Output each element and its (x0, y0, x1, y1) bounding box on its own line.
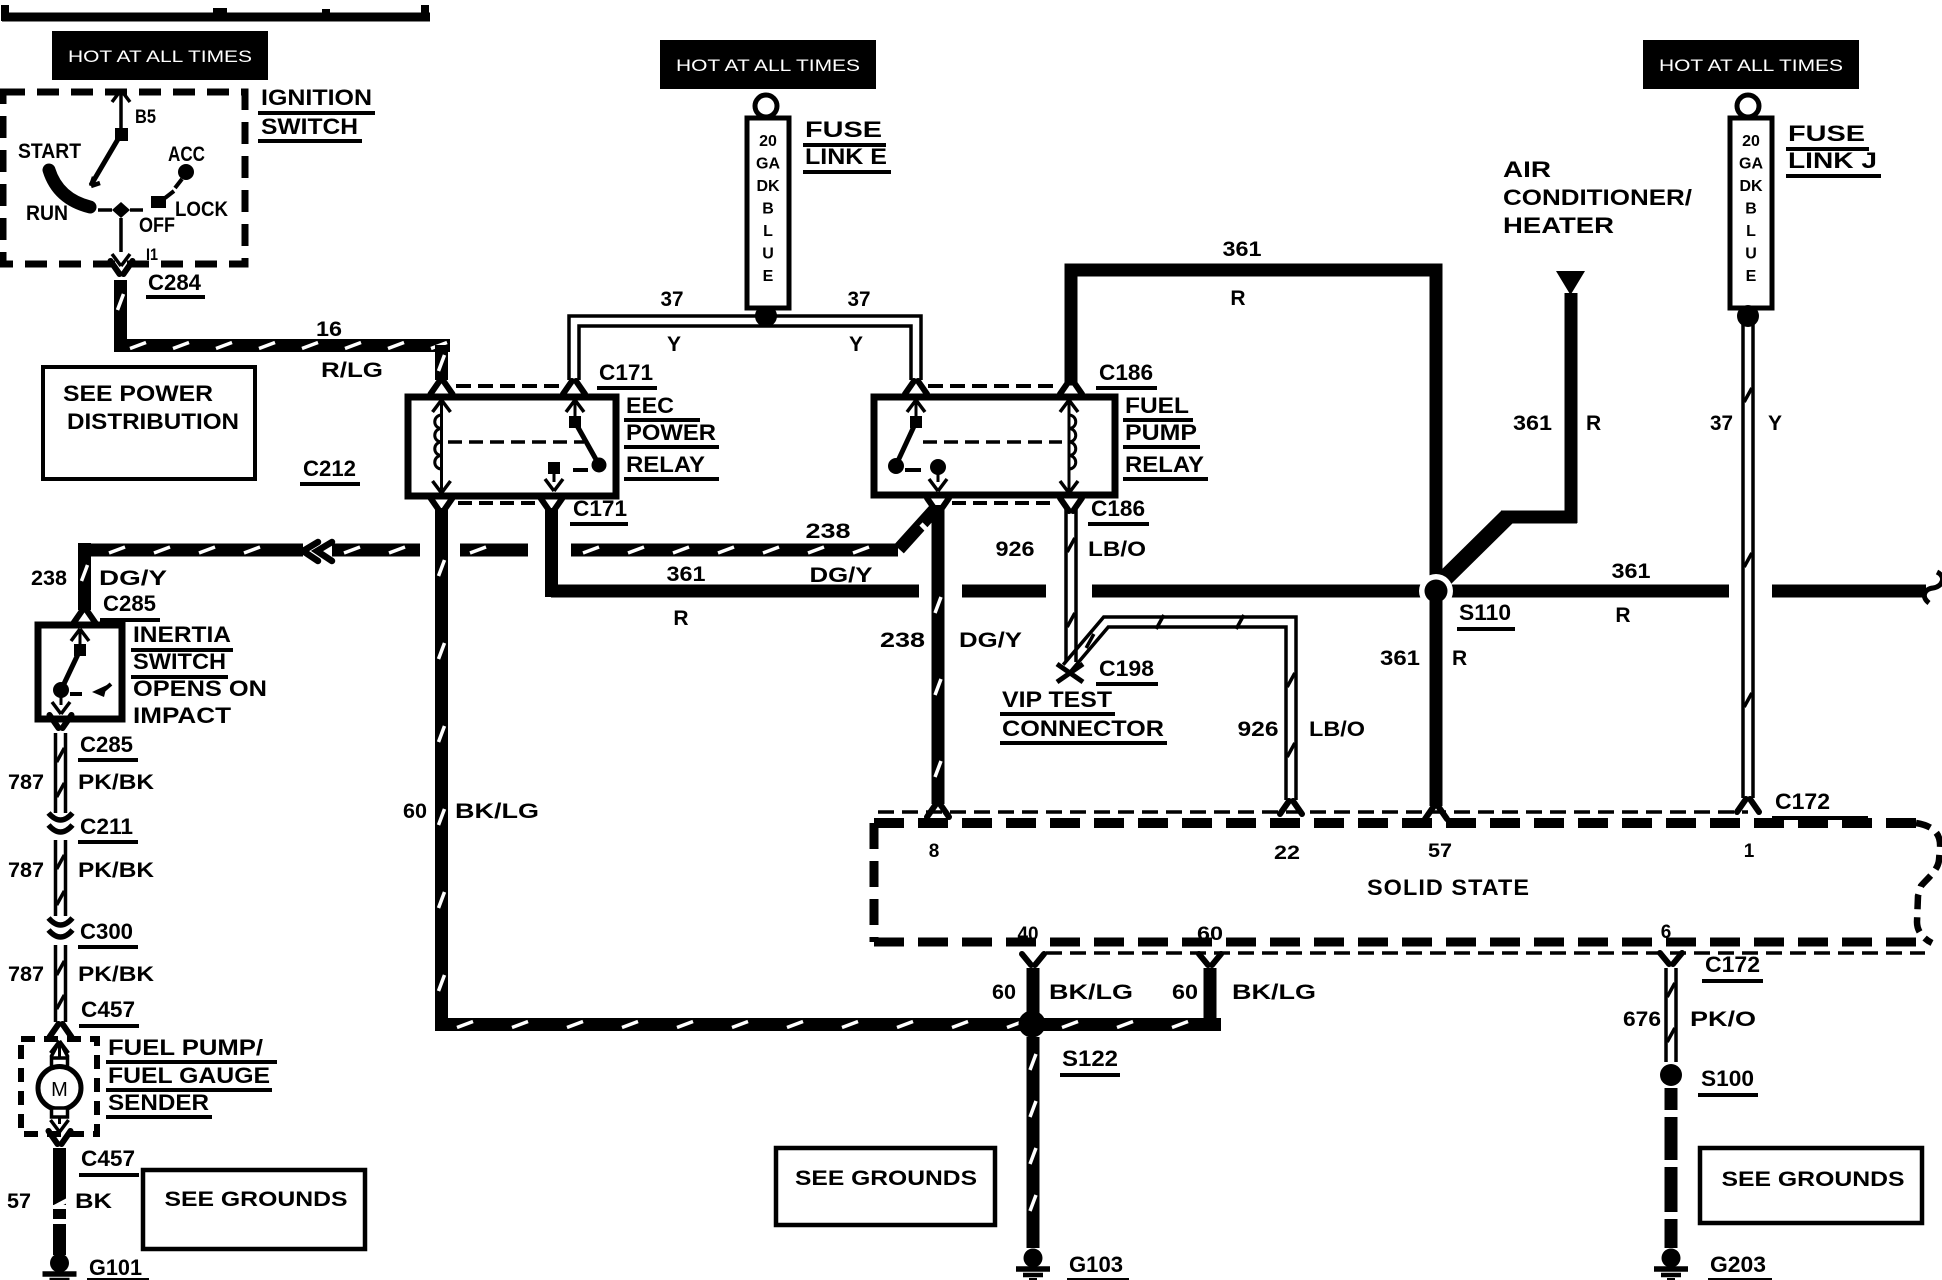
svg-text:57: 57 (1428, 841, 1452, 862)
svg-text:CONDITIONER/: CONDITIONER/ (1503, 185, 1692, 210)
svg-text:I1: I1 (146, 245, 158, 264)
svg-text:S122: S122 (1062, 1046, 1118, 1071)
svg-text:6: 6 (1661, 922, 1672, 943)
svg-text:37: 37 (661, 288, 684, 311)
svg-text:RUN: RUN (26, 202, 68, 225)
svg-text:EEC: EEC (626, 393, 674, 418)
svg-text:BK/LG: BK/LG (1232, 981, 1316, 1004)
svg-text:HEATER: HEATER (1503, 213, 1614, 238)
svg-text:FUEL GAUGE: FUEL GAUGE (108, 1063, 270, 1088)
svg-text:IMPACT: IMPACT (133, 703, 232, 728)
svg-text:361: 361 (1612, 560, 1651, 583)
svg-text:SWITCH: SWITCH (133, 649, 226, 674)
svg-text:BK: BK (75, 1190, 112, 1213)
svg-text:B: B (1745, 201, 1757, 218)
svg-text:R: R (1586, 412, 1601, 435)
svg-text:20: 20 (759, 133, 777, 150)
svg-text:DK: DK (1739, 178, 1763, 195)
svg-text:PK/BK: PK/BK (78, 963, 154, 986)
svg-text:C172: C172 (1775, 789, 1830, 814)
svg-text:C198: C198 (1099, 656, 1154, 681)
svg-text:C171: C171 (573, 496, 627, 521)
svg-text:R: R (1615, 604, 1630, 627)
svg-text:8: 8 (929, 841, 940, 862)
svg-text:S100: S100 (1701, 1066, 1754, 1091)
svg-text:361: 361 (667, 563, 706, 586)
svg-text:C285: C285 (103, 591, 156, 616)
svg-text:OPENS ON: OPENS ON (133, 676, 267, 701)
svg-text:PK/O: PK/O (1690, 1008, 1756, 1031)
svg-text:R: R (1452, 647, 1467, 670)
svg-text:60: 60 (1172, 981, 1198, 1004)
svg-text:SEE GROUNDS: SEE GROUNDS (165, 1188, 348, 1211)
svg-text:R: R (673, 607, 688, 630)
svg-text:926: 926 (1238, 718, 1279, 741)
svg-text:C284: C284 (148, 270, 202, 295)
svg-text:G103: G103 (1069, 1252, 1123, 1277)
svg-text:57: 57 (7, 1190, 31, 1213)
svg-text:SEE GROUNDS: SEE GROUNDS (1722, 1168, 1905, 1191)
svg-text:E: E (763, 268, 774, 285)
svg-text:926: 926 (996, 538, 1035, 561)
svg-text:FUEL PUMP/: FUEL PUMP/ (108, 1035, 263, 1060)
svg-text:L: L (763, 223, 773, 240)
svg-text:60: 60 (992, 981, 1016, 1004)
svg-text:C285: C285 (80, 732, 133, 757)
svg-text:60: 60 (1197, 924, 1223, 945)
svg-text:787: 787 (8, 771, 44, 794)
svg-text:CONNECTOR: CONNECTOR (1002, 716, 1164, 741)
svg-text:361: 361 (1223, 238, 1262, 261)
svg-text:C172: C172 (1705, 952, 1760, 977)
svg-text:HOT AT ALL TIMES: HOT AT ALL TIMES (676, 56, 860, 75)
svg-text:PUMP: PUMP (1125, 420, 1197, 445)
svg-text:DK: DK (756, 178, 780, 195)
svg-text:DISTRIBUTION: DISTRIBUTION (67, 409, 239, 434)
svg-text:LINK J: LINK J (1788, 148, 1877, 173)
svg-text:16: 16 (316, 318, 342, 341)
svg-text:LOCK: LOCK (175, 198, 228, 221)
svg-text:U: U (762, 246, 774, 263)
svg-text:M: M (51, 1079, 68, 1101)
svg-text:FUSE: FUSE (1788, 121, 1865, 146)
svg-text:C186: C186 (1099, 360, 1153, 385)
svg-text:DG/Y: DG/Y (959, 629, 1022, 652)
svg-text:L: L (1746, 223, 1756, 240)
svg-text:676: 676 (1623, 1008, 1661, 1031)
svg-text:LINK E: LINK E (805, 144, 887, 169)
svg-text:238: 238 (880, 629, 925, 652)
svg-text:AIR: AIR (1503, 157, 1551, 182)
svg-text:37: 37 (848, 288, 871, 311)
svg-text:LB/O: LB/O (1309, 718, 1365, 741)
svg-text:E: E (1746, 268, 1757, 285)
svg-text:361: 361 (1380, 647, 1420, 670)
svg-text:R/LG: R/LG (321, 359, 383, 382)
svg-text:Y: Y (849, 333, 863, 356)
svg-text:DG/Y: DG/Y (99, 567, 167, 590)
svg-text:FUEL: FUEL (1125, 393, 1189, 418)
svg-text:DG/Y: DG/Y (810, 564, 873, 587)
svg-text:RELAY: RELAY (626, 452, 705, 477)
svg-text:LB/O: LB/O (1088, 538, 1146, 561)
svg-text:G101: G101 (89, 1255, 142, 1280)
svg-text:PK/BK: PK/BK (78, 771, 154, 794)
svg-text:GA: GA (756, 156, 780, 173)
svg-text:ACC: ACC (168, 143, 205, 166)
svg-text:787: 787 (8, 859, 44, 882)
svg-text:R: R (1230, 287, 1245, 310)
svg-text:BK/LG: BK/LG (1049, 981, 1133, 1004)
svg-text:S110: S110 (1459, 600, 1511, 625)
svg-text:C212: C212 (303, 456, 356, 481)
svg-text:SOLID STATE: SOLID STATE (1367, 875, 1530, 900)
svg-text:FUSE: FUSE (805, 117, 882, 142)
svg-text:RELAY: RELAY (1125, 452, 1204, 477)
svg-text:238: 238 (806, 520, 851, 543)
svg-text:PK/BK: PK/BK (78, 859, 154, 882)
svg-text:1: 1 (1744, 841, 1755, 862)
svg-text:C171: C171 (599, 360, 653, 385)
svg-text:SENDER: SENDER (108, 1090, 209, 1115)
svg-text:B: B (762, 201, 774, 218)
svg-text:C457: C457 (81, 1146, 135, 1171)
svg-text:361: 361 (1513, 412, 1552, 435)
svg-text:START: START (18, 140, 81, 163)
svg-text:20: 20 (1742, 133, 1760, 150)
svg-text:C186: C186 (1091, 496, 1145, 521)
svg-text:SEE GROUNDS: SEE GROUNDS (795, 1167, 977, 1190)
svg-text:HOT AT ALL TIMES: HOT AT ALL TIMES (68, 47, 252, 66)
svg-text:Y: Y (667, 333, 681, 356)
svg-text:238: 238 (31, 567, 67, 590)
svg-text:G203: G203 (1710, 1252, 1766, 1277)
svg-text:60: 60 (403, 800, 427, 823)
svg-text:22: 22 (1274, 843, 1300, 864)
svg-text:C300: C300 (80, 919, 133, 944)
svg-text:B5: B5 (135, 107, 156, 128)
svg-text:BK/LG: BK/LG (455, 800, 539, 823)
svg-text:HOT AT ALL TIMES: HOT AT ALL TIMES (1659, 56, 1843, 75)
svg-text:IGNITION: IGNITION (261, 85, 372, 110)
svg-text:Y: Y (1768, 412, 1782, 435)
svg-text:C211: C211 (80, 814, 133, 839)
svg-text:787: 787 (8, 963, 44, 986)
svg-text:SWITCH: SWITCH (261, 114, 358, 139)
svg-text:OFF: OFF (139, 214, 175, 237)
svg-text:U: U (1745, 246, 1757, 263)
svg-text:C457: C457 (81, 997, 135, 1022)
svg-text:VIP TEST: VIP TEST (1002, 687, 1113, 712)
svg-text:37: 37 (1710, 412, 1733, 435)
svg-text:40: 40 (1018, 924, 1039, 945)
svg-text:GA: GA (1739, 156, 1763, 173)
svg-text:POWER: POWER (626, 420, 716, 445)
svg-text:SEE POWER: SEE POWER (63, 381, 213, 406)
svg-text:INERTIA: INERTIA (133, 622, 231, 647)
